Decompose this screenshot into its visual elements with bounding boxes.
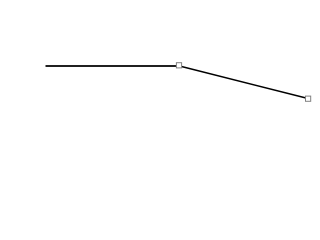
node B bbox=[306, 96, 311, 101]
wire bbox=[46, 65, 180, 67]
node A bbox=[176, 63, 181, 68]
wire bbox=[179, 66, 308, 99]
